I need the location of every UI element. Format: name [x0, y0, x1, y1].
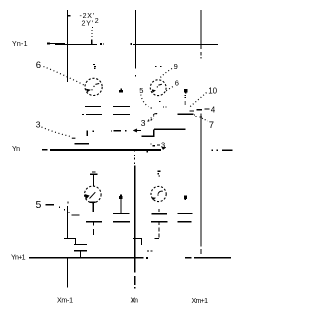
capacitor C1a (top-left pixel, under Q1): plates	[85, 106, 101, 107]
arrowhead under 3 (right)	[162, 147, 166, 150]
svg-text:Xm: Xm	[131, 297, 139, 304]
pixel pin P2 with dotted stem	[184, 89, 187, 92]
svg-text:Yn: Yn	[12, 146, 20, 153]
arrowhead of dash-dot arrow	[133, 129, 137, 133]
svg-text:Xm-1: Xm-1	[57, 298, 73, 305]
Xm-1 dash-dot dot	[67, 202, 68, 204]
TFT Q1 (top-left pixel transistor)	[85, 78, 102, 95]
TFT Q4 (bottom-right pixel transistor)	[151, 186, 166, 201]
svg-text:-2X': -2X'	[80, 13, 95, 20]
Xm-1 below Yn+1	[67, 257, 68, 288]
svg-text:3: 3	[161, 140, 165, 149]
TFT Q2 (top-right pixel transistor)	[150, 80, 166, 96]
source line Xm-1 (top segment)	[67, 10, 68, 82]
leader from 10	[189, 93, 207, 108]
dashes near Yn+1 (mid)	[147, 250, 149, 251]
pixel electrode wire (top-right, stepped)	[142, 136, 155, 137]
leader dashes from 5 (bottom-left)	[46, 204, 55, 205]
capacitor C2 (top-right pixel): dashed plate + solid plate	[190, 111, 195, 112]
Xm-1 lower segment	[67, 206, 68, 239]
leader from 5 (top), curving to C2	[141, 95, 149, 107]
source line Xm (top segment)	[135, 10, 136, 69]
leader line from 6 (left) to Q1	[44, 67, 85, 86]
svg-text:3: 3	[141, 118, 146, 128]
marks above Q1	[93, 64, 95, 65]
svg-text:5: 5	[36, 199, 42, 211]
dash-dot arrow toward Xm	[111, 130, 112, 131]
2-leader dots and tick	[92, 27, 93, 28]
storage capacitor bar on Yn+1 (left)	[74, 250, 87, 251]
Q4 stem to capacitor	[158, 209, 159, 212]
svg-text:3: 3	[36, 120, 41, 130]
Xm-1 tick	[68, 15, 71, 16]
Xm main lower segment	[134, 166, 135, 273]
TFT Q3 (bottom-left pixel transistor)	[85, 186, 102, 203]
Xm+1 lower segment	[200, 114, 201, 247]
dotted electrode mark above Q4	[158, 171, 161, 172]
electrode bar below 1	[75, 143, 90, 144]
Xm-1 bottom step wire	[64, 238, 76, 239]
leader from 3 (mid) up-right	[148, 118, 154, 121]
dotted diagonal below Q2	[148, 114, 156, 121]
svg-text:10: 10	[208, 87, 217, 96]
svg-text:6: 6	[175, 79, 179, 88]
gate line Yn	[42, 149, 48, 151]
Q3 bottom bar and stem	[90, 202, 96, 203]
Xm dash-dot below Yn	[134, 150, 135, 151]
pixel pin P3 with stem	[119, 196, 122, 199]
svg-text:6: 6	[36, 60, 41, 71]
capacitor C1b (top-left pixel, right): plates	[113, 106, 130, 107]
capacitor C3a plate	[86, 221, 102, 222]
numeral 1 stroke (pixel electrode label)	[87, 131, 88, 137]
leader from 9 to Q2	[159, 69, 172, 79]
capacitor C3b (right) plates	[113, 213, 130, 214]
curved mark below Q2	[153, 114, 157, 115]
dashed stem below C3a	[93, 222, 94, 225]
svg-text:9: 9	[174, 62, 178, 71]
svg-text:7: 7	[209, 120, 214, 131]
Xm bottom step wire	[133, 238, 142, 239]
gate line Yn+1	[29, 257, 144, 259]
leader from 7	[202, 118, 208, 121]
svg-text:Yn-1: Yn-1	[12, 41, 28, 48]
pixel pin P4	[184, 195, 187, 198]
leader tick from 7 on Xm+1	[200, 116, 203, 117]
svg-text:4: 4	[211, 106, 216, 115]
leader dashes from 4	[204, 108, 209, 109]
source line Xm+1 (top segment)	[200, 10, 201, 49]
dot right of 1	[92, 130, 94, 132]
leader marks from 3 (right)	[150, 143, 151, 144]
leader line from 3 (left) to 1	[42, 127, 71, 137]
capacitor C4b (right) plates	[178, 213, 193, 214]
pixel pin P1	[119, 90, 123, 92]
node dots above Q2	[155, 66, 157, 67]
svg-text:Yn+1: Yn+1	[11, 255, 26, 262]
svg-text:Xm+1: Xm+1	[192, 298, 209, 305]
svg-text:2Y': 2Y'	[82, 20, 94, 27]
leader marks near 5 (top)	[150, 108, 152, 109]
electrode symbol above Q3	[92, 172, 96, 173]
dashed stem below C4a	[158, 222, 159, 225]
svg-text:2: 2	[95, 18, 99, 25]
leader from 6 (right) to Q2	[166, 87, 173, 91]
svg-text:5: 5	[139, 86, 143, 95]
capacitor C4a plates	[152, 213, 168, 214]
gate line Yn-1	[47, 43, 50, 45]
